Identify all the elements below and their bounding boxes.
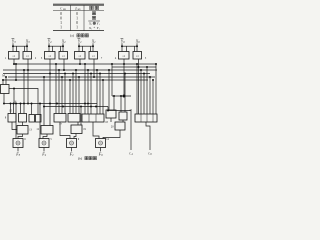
wire gate17 jog to out1 xyxy=(60,122,70,139)
svg-text:0: 0 xyxy=(76,21,78,25)
gate number labels top row xyxy=(5,57,147,60)
input label Y1 xyxy=(78,38,83,44)
wire mid bus right xyxy=(107,110,131,112)
gate box 15 xyxy=(5,110,16,123)
wire inputs pair 3 xyxy=(12,43,28,51)
wire sum3 to out3 xyxy=(18,134,23,139)
gate box pair 0 right xyxy=(133,52,142,60)
label C0 xyxy=(148,151,152,156)
wire bus line 5 with M input xyxy=(1,74,148,81)
input label X1 xyxy=(91,38,96,44)
svg-text:M: M xyxy=(1,74,5,78)
wire carry out C4 xyxy=(130,111,132,151)
table function column xyxy=(88,12,100,31)
output gate F3 xyxy=(13,138,26,148)
gate box 18a xyxy=(68,114,80,123)
svg-text:+: + xyxy=(93,26,95,30)
output gate F2 xyxy=(39,138,52,148)
label F0 xyxy=(98,151,103,157)
svg-text:1: 1 xyxy=(76,26,78,30)
wire carry out C0 xyxy=(146,122,150,150)
gate box 13 sum3 xyxy=(17,126,33,135)
wire right junction line xyxy=(112,67,131,98)
wire bus line 2 xyxy=(3,69,157,71)
caption (b) xyxy=(78,156,96,160)
wire sum2 to out2 xyxy=(43,134,47,139)
input label X3 xyxy=(25,38,30,44)
wire inputs pair 1 xyxy=(78,43,94,51)
svg-text:0: 0 xyxy=(76,12,78,16)
wire output F0 xyxy=(100,148,102,152)
wire inputs gate 10 xyxy=(20,103,22,114)
wire bus line right extra xyxy=(111,63,156,67)
wire input fan gate 18a xyxy=(69,69,80,114)
wire sum1 to out1 xyxy=(74,134,76,139)
wire output F2 xyxy=(43,148,45,152)
svg-text:1: 1 xyxy=(60,21,62,25)
function table rules xyxy=(53,4,104,30)
gate box 20 xyxy=(111,122,125,130)
wire inputs gate 24 xyxy=(120,73,126,113)
wire inputs gate 23 xyxy=(108,69,115,110)
wire input gate C xyxy=(31,103,33,115)
svg-text:(a): (a) xyxy=(70,34,74,38)
wire inputs gate 15 xyxy=(10,103,15,114)
gate box 18 wide xyxy=(82,114,109,124)
gate box small C xyxy=(29,115,35,123)
wire inputs sum1 xyxy=(78,106,82,126)
gate box 24 xyxy=(119,109,133,120)
svg-text:1: 1 xyxy=(76,16,78,20)
wire collector bus H2 xyxy=(44,106,108,111)
table data column Cms xyxy=(60,12,62,30)
svg-text:1: 1 xyxy=(60,26,62,30)
wire left vertical tap xyxy=(15,63,17,81)
output gate F1 xyxy=(67,138,80,148)
input label X0 xyxy=(135,38,140,44)
gate box pair 1 right xyxy=(89,52,98,60)
wire inputs gate 16 xyxy=(2,76,7,85)
svg-text:0: 0 xyxy=(60,16,62,20)
wire gate outputs xyxy=(13,59,140,114)
label F2 xyxy=(41,151,46,157)
wire inputs pair 0 xyxy=(121,43,138,51)
wire bus line 3 xyxy=(3,73,150,75)
gate box 23 xyxy=(106,110,116,118)
input label Y0 xyxy=(121,38,126,44)
gate box 17 xyxy=(54,114,66,126)
table header row xyxy=(60,6,99,11)
input label X2 xyxy=(61,38,66,44)
svg-text:(b): (b) xyxy=(78,156,82,160)
label F1 xyxy=(69,151,74,157)
gate box 12 sum2 xyxy=(36,126,53,135)
output gate F0 xyxy=(96,138,110,148)
label F3 xyxy=(15,151,20,157)
wire collector bus H1 xyxy=(4,69,97,139)
label C4 xyxy=(129,151,133,156)
wire stub gate 16 bottom xyxy=(3,94,5,105)
gate box 19 sum1 xyxy=(71,125,87,134)
wire input fan gate 18 xyxy=(84,63,104,114)
wire output F3 xyxy=(17,148,19,152)
wire input fan gate 21 xyxy=(136,63,157,114)
gate box small D xyxy=(36,115,42,123)
svg-text:0: 0 xyxy=(60,12,62,16)
xor gate box pair 2 left xyxy=(45,52,56,60)
wire bus line 1 xyxy=(14,63,156,65)
wire gate20 to out0 xyxy=(103,130,120,139)
gate box 16 xyxy=(1,85,18,104)
gate box pair 2 right xyxy=(59,52,68,60)
wire gate18 jog to out0 xyxy=(93,122,99,139)
gate box 10 xyxy=(19,114,27,123)
caption (a) xyxy=(70,34,88,38)
wire output F1 xyxy=(71,148,73,152)
gate box 21 wide xyxy=(135,114,157,122)
xor gate box pair 0 left xyxy=(119,52,130,60)
wire inputs pair 2 xyxy=(48,43,64,51)
input label Y2 xyxy=(48,38,53,44)
input label Y3 xyxy=(12,38,17,44)
gate box pair 3 right xyxy=(23,52,32,60)
wire inputs gate 20 xyxy=(111,118,123,122)
wire step output gate 16 xyxy=(9,88,38,115)
wire input fan gate 17 xyxy=(55,63,66,114)
wire inputs sum3 xyxy=(12,122,23,130)
xor gate box pair 1 left xyxy=(75,52,86,60)
table data column Zms xyxy=(76,12,78,30)
wire long feed out2 xyxy=(39,103,41,139)
xor gate box pair 3 left xyxy=(9,52,20,60)
wire inputs sum2 xyxy=(43,74,51,126)
wire bus line 4 xyxy=(8,76,155,78)
